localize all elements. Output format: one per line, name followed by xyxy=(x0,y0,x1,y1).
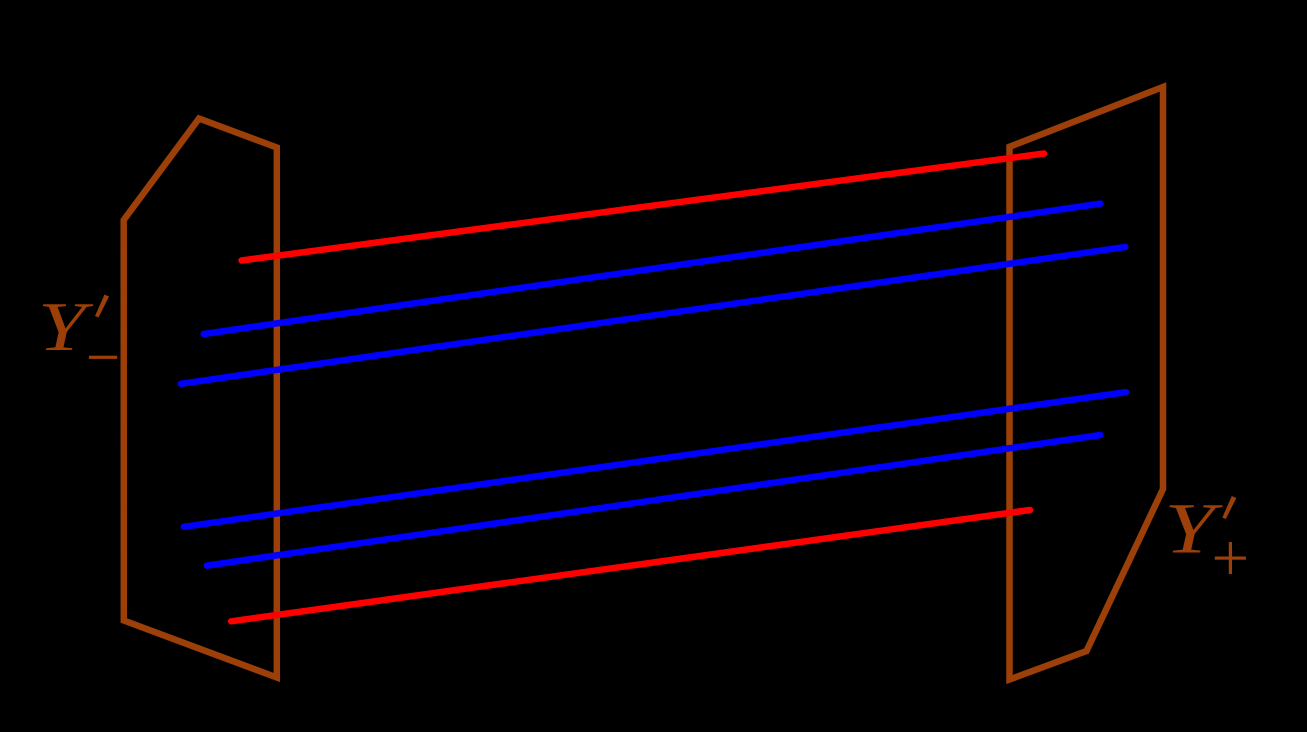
svg-text:Y: Y xyxy=(38,288,94,366)
svg-text:Y: Y xyxy=(1164,488,1223,568)
